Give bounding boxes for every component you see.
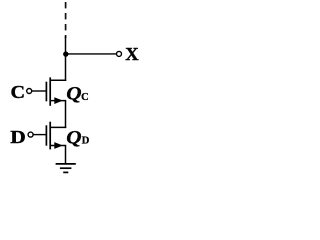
transistor Q_D source lead with arrow	[50, 145, 66, 147]
transistor Q_D channel bar	[49, 122, 51, 150]
terminal: open circle at input C	[27, 89, 32, 94]
terminal: open circle at input D	[28, 132, 33, 137]
svg-text:X: X	[125, 44, 138, 64]
svg-text:Q: Q	[66, 84, 81, 104]
svg-text:D: D	[82, 136, 90, 147]
ground symbol	[56, 163, 76, 165]
svg-text:Q: Q	[66, 128, 81, 148]
svg-text:C: C	[81, 92, 89, 103]
svg-text:C: C	[11, 82, 26, 102]
wire: Q_D source down to ground	[65, 146, 67, 165]
transistor Q_C drain lead	[50, 79, 66, 81]
svg-text:D: D	[10, 127, 25, 147]
wire: solid vertical rail from dashed stub down to Q_C drain	[65, 37, 67, 82]
transistor Q_C gate bar	[45, 82, 47, 102]
wire: gate lead of Q_C	[32, 90, 46, 92]
terminal: open circle at node X	[117, 51, 122, 56]
wire: horizontal from junction to output terminal X	[66, 53, 116, 55]
node junction dot at output rail	[63, 51, 68, 56]
transistor Q_C source lead with arrow	[50, 100, 66, 102]
transistor Q_D drain lead	[50, 126, 66, 128]
wire: Q_C source down to Q_D drain	[65, 101, 67, 129]
wire: dashed vertical stub to implied load above node X	[65, 2, 67, 38]
wire: gate lead of Q_D	[33, 134, 46, 136]
transistor Q_C channel bar	[49, 77, 51, 105]
transistor Q_D gate bar	[45, 125, 47, 145]
